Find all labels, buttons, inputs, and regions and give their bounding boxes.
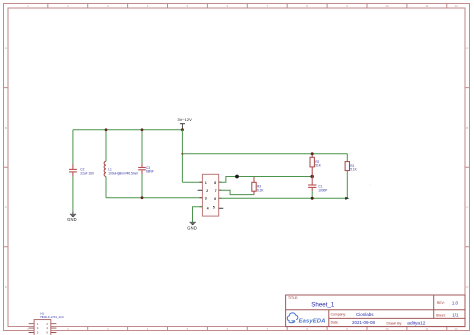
svg-text:1000P: 1000P [318,189,327,193]
svg-text:2021-09-08: 2021-09-08 [352,320,376,325]
junction L1 top [105,128,108,131]
wire branch rail to R1 [182,153,347,155]
inductor L1 [104,161,138,176]
svg-text:1/1: 1/1 [452,313,459,318]
svg-text:GND: GND [187,225,197,230]
svg-text:B: B [5,126,7,130]
svg-text:3: 3 [205,197,207,201]
svg-text:EasyEDA: EasyEDA [299,318,326,324]
wire left mid rail to pin3 [106,197,202,199]
junction at branch [181,153,183,155]
junction R1 bottom [345,197,349,200]
wire to pin 1 [182,181,202,183]
capacitor C1 [308,177,327,199]
EasyEDA logo [287,313,325,324]
svg-text:TITLE:: TITLE: [288,296,298,300]
wire L1 bottom lead [105,177,107,198]
resistor R1 [345,154,358,199]
svg-text:Company:: Company: [331,313,347,317]
pin numbers 1-8 [205,181,217,211]
power symbol 3V~12V [180,124,185,130]
left ticks [4,88,9,247]
right ticks [465,88,470,247]
svg-text:7: 7 [215,189,217,193]
svg-text:8: 8 [214,181,216,185]
wire pin7 net [219,190,254,194]
svg-text:68NF: 68NF [146,170,154,174]
svg-text:1.0: 1.0 [452,300,459,305]
ground GND (left) [67,211,77,221]
wire C2 bottom to GND [72,177,74,212]
svg-text:Sheet_1: Sheet_1 [311,301,335,308]
svg-text:4: 4 [207,206,209,210]
wire top rail [73,129,182,131]
wire pin8 net [219,177,313,183]
svg-text:22uF 16V: 22uF 16V [80,172,95,176]
svg-text:GND: GND [67,217,77,222]
junction R2 top [311,152,314,155]
svg-text:Date:: Date: [331,321,339,325]
svg-text:12: 12 [454,327,458,331]
svg-text:Drawn By:: Drawn By: [387,322,403,326]
svg-text:REV:: REV: [437,301,445,305]
capacitor C3 [138,163,154,174]
wire C3 top lead [141,130,143,164]
svg-text:5.1K: 5.1K [350,168,357,172]
wire L1 top lead [105,130,107,162]
resistor R3 [252,177,265,195]
wire bottom right rail [219,197,348,199]
svg-text:10: 10 [385,327,389,331]
svg-text:B: B [466,126,468,130]
svg-text:5: 5 [213,205,215,209]
svg-text:51K: 51K [315,164,322,168]
svg-text:6.2K: 6.2K [257,188,264,192]
svg-text:HDR-F-2.54_2x4: HDR-F-2.54_2x4 [40,315,64,319]
svg-text:2: 2 [206,189,208,193]
junction R2/C1 [311,175,314,178]
svg-text:11: 11 [425,4,428,8]
svg-text:6: 6 [214,197,216,201]
svg-text:aditya12: aditya12 [407,321,425,327]
pin 5 no-connect stub [219,207,224,209]
svg-text:Sheet:: Sheet: [436,313,446,317]
connector H1 [29,312,64,335]
wire pin4 to ground [193,207,203,223]
wire C2 top lead [72,130,74,165]
svg-text:1: 1 [205,181,207,185]
title block [286,295,465,327]
svg-text:A: A [5,46,7,50]
top ticks [48,4,447,9]
wire power vertical [181,130,183,182]
IC U1 (8-pin) [198,174,224,216]
svg-text:10: 10 [385,4,389,8]
svg-text:A: A [466,46,468,50]
svg-text:3V~12V: 3V~12V [177,117,192,122]
svg-text:11: 11 [425,327,428,331]
bottom ticks [48,327,447,331]
junction C3 bottom [141,196,144,199]
H1 pin numbers [37,322,49,335]
wire C3 bottom lead [141,174,143,198]
ground GND (IC) [187,222,197,230]
frame row letters [5,46,470,289]
junction power node [181,128,184,131]
junction C3 top [141,128,144,131]
resistor R2 [310,154,322,177]
capacitor C2 [69,165,95,177]
svg-text:100uH(8mmΦ0.5mm: 100uH(8mmΦ0.5mm [108,171,138,175]
junction C1 bottom [311,197,314,200]
node black dot [235,175,239,179]
pin 2 no-connect stub [198,189,203,191]
svg-text:Cionlabs: Cionlabs [356,312,374,317]
svg-text:12: 12 [454,4,458,8]
